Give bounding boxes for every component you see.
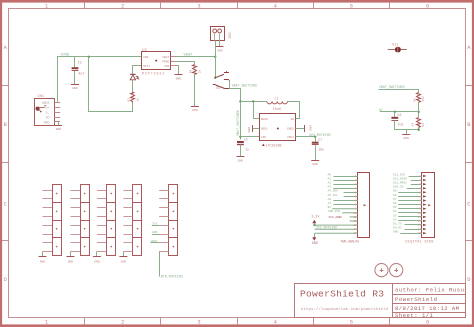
- wire J2 pin 13 D1_TX: [405, 224, 422, 226]
- connector CN1 (USB): [35, 95, 55, 126]
- wire JP5 GND stub: [152, 234, 159, 236]
- wire J2 pin 4 D10_SS: [407, 188, 422, 190]
- svg-text:A7: A7: [328, 202, 332, 205]
- wire J1 pin 1 A0: [333, 176, 357, 178]
- wire J1 pin 13: [315, 224, 358, 226]
- frame row letters right: [467, 45, 471, 283]
- wire J1 pin 3 A2: [333, 184, 357, 186]
- wire JP5 3V3 stub: [152, 225, 159, 227]
- title mark circle 1: [375, 264, 388, 277]
- wire VBUS up to VUSB rail: [58, 57, 142, 103]
- svg-text:VIN: VIN: [261, 136, 266, 139]
- wire J2 pin 7 D7: [398, 200, 422, 202]
- svg-text:SW: SW: [291, 118, 295, 121]
- svg-text:C5: C5: [244, 138, 248, 142]
- svg-text:6: 6: [426, 4, 429, 10]
- svg-text:2k: 2k: [197, 69, 201, 73]
- svg-text:10u: 10u: [318, 147, 324, 151]
- J2 center arrow: [428, 204, 431, 207]
- svg-text:GND1: GND1: [261, 128, 268, 131]
- svg-text:L1: L1: [275, 97, 279, 101]
- wire J2 pin 10 D4: [398, 212, 422, 214]
- svg-text:D13_SCK: D13_SCK: [393, 173, 405, 176]
- wire J2 pin 9 D5: [398, 208, 422, 210]
- wire divider input: [379, 90, 419, 93]
- svg-text:C7: C7: [318, 138, 322, 142]
- wire J2 pin 5 D9: [398, 192, 422, 194]
- svg-text:D9: D9: [393, 190, 397, 193]
- svg-text:3,3V: 3,3V: [311, 215, 319, 219]
- svg-text:VBUS: VBUS: [42, 101, 50, 105]
- wire J2 pin 1 D13_SCK: [409, 176, 422, 178]
- connector CN2 (battery): [211, 27, 232, 41]
- svg-text:GND: GND: [312, 241, 318, 245]
- CN1 USB symbol: [36, 105, 46, 112]
- junction SHDN tap: [252, 100, 254, 102]
- wire L1 to SW pin: [288, 102, 300, 119]
- svg-text:3V3_AREF: 3V3_AREF: [328, 216, 342, 219]
- junction on VUSB rail: [88, 56, 90, 58]
- svg-text:6: 6: [426, 319, 429, 325]
- wire J1 pin 4 A3: [333, 188, 357, 190]
- svg-text:5: 5: [350, 4, 353, 10]
- svg-text:CN1: CN1: [38, 95, 44, 99]
- pin header JP2: [71, 185, 90, 256]
- solder jumper SJ1: [388, 42, 407, 52]
- svg-text:1k: 1k: [135, 98, 139, 102]
- svg-text:S1: S1: [216, 86, 220, 90]
- U3 right pin stubs: [171, 57, 177, 66]
- wire J1 pin 14: [315, 228, 358, 230]
- svg-text:D7: D7: [393, 198, 397, 201]
- svg-text:2: 2: [121, 319, 124, 325]
- svg-text:D8: D8: [393, 194, 397, 197]
- wire J2 pin 12 D2: [398, 220, 422, 222]
- svg-text:5: 5: [350, 319, 353, 325]
- svg-text:GND: GND: [217, 48, 223, 52]
- svg-text:GND: GND: [309, 125, 313, 131]
- wire J2 pin 2 D12_MISO: [411, 180, 422, 182]
- svg-text:VBAT: VBAT: [162, 56, 169, 59]
- wire J1 pin 2 A1: [333, 180, 357, 182]
- frame row ticks left: [2, 86, 8, 241]
- svg-text:GND: GND: [94, 260, 100, 264]
- svg-text:GND: GND: [393, 231, 398, 234]
- svg-text:C: C: [467, 202, 470, 208]
- IC U3 charger: [142, 49, 171, 76]
- pin header JP1: [43, 185, 62, 256]
- svg-text:D1_TX: D1_TX: [393, 222, 402, 225]
- wire LED up to STAT pin: [133, 66, 142, 75]
- svg-text:GND2: GND2: [287, 128, 294, 131]
- svg-text:GND: GND: [238, 158, 244, 162]
- svg-text:D5: D5: [393, 206, 397, 209]
- junction J1 pin 13: [313, 224, 315, 226]
- frame column ticks top: [85, 3, 390, 9]
- svg-text:BTN_MOTEINO: BTN_MOTEINO: [161, 274, 183, 278]
- ground below JP4: [119, 257, 127, 264]
- wire JP2 pin8 to ground: [70, 252, 72, 257]
- svg-text:4: 4: [274, 319, 277, 325]
- wire divider bottom: [395, 128, 419, 130]
- svg-text:CN2: CN2: [228, 33, 232, 39]
- title mark circle 2: [390, 264, 403, 277]
- wire VBAT rail: [177, 56, 216, 58]
- svg-text:PROG: PROG: [162, 60, 169, 63]
- wire JP1 pin8 to ground: [42, 252, 44, 257]
- ground below C5: [236, 157, 244, 163]
- svg-text:GND: GND: [192, 108, 198, 112]
- wire J1 pin 15: [315, 232, 358, 234]
- svg-text:2: 2: [121, 4, 124, 10]
- svg-text:1M: 1M: [410, 123, 414, 127]
- wire JP5 pin8 BTN: [159, 252, 161, 277]
- pin header JP5: [159, 185, 178, 256]
- wire CN2 pin2 to ground: [219, 41, 221, 47]
- wire R2 to node A7: [418, 102, 420, 117]
- svg-text:PWR_ANALOG: PWR_ANALOG: [341, 240, 360, 244]
- ground below C7: [311, 161, 319, 166]
- LED D1: [130, 74, 139, 79]
- wire J1 pin 8 A7: [333, 204, 357, 206]
- wire J2 pin 8 D6: [398, 204, 422, 206]
- svg-text:GND: GND: [56, 127, 62, 131]
- capacitor C7: [312, 137, 324, 160]
- svg-text:4u7: 4u7: [78, 72, 84, 76]
- ground below C2: [71, 85, 79, 90]
- J1 center arrow: [364, 204, 367, 207]
- ground rotated at GND2: [296, 125, 313, 132]
- svg-text:A2: A2: [328, 182, 332, 185]
- ground below CN2: [216, 47, 224, 53]
- inductor L1: [267, 97, 288, 111]
- svg-text:D11_MOSI: D11_MOSI: [393, 182, 407, 185]
- svg-text:0u1: 0u1: [398, 122, 404, 126]
- svg-text:C: C: [4, 202, 7, 208]
- ground rotated at GND1: [247, 125, 259, 133]
- frame row ticks right: [466, 86, 472, 241]
- svg-text:1: 1: [45, 319, 48, 325]
- svg-text:R1: R1: [126, 98, 130, 102]
- wire VIN: [240, 136, 259, 138]
- junction VBAT: [214, 56, 216, 58]
- svg-text:3: 3: [197, 4, 200, 10]
- wire SHDN: [254, 102, 260, 119]
- wire J1 pin 9 BV: [332, 208, 357, 210]
- svg-text:R2: R2: [412, 98, 416, 102]
- ground arrow at J1: [312, 233, 318, 245]
- svg-text:3V3_MOTEINO: 3V3_MOTEINO: [309, 133, 331, 137]
- svg-text:4: 4: [274, 4, 277, 10]
- svg-text:VBAT_SWITCHED: VBAT_SWITCHED: [379, 85, 405, 89]
- switch S1: [213, 71, 229, 88]
- svg-text:GND: GND: [44, 120, 50, 124]
- wire J1 pin 7 A6: [333, 200, 357, 202]
- frame column numbers top: [45, 4, 429, 10]
- ground below JP3: [93, 257, 101, 264]
- svg-text:R4: R4: [189, 69, 193, 73]
- svg-text:D+: D+: [46, 106, 50, 110]
- wire J2 pin 11 D3: [398, 216, 422, 218]
- svg-text:STAT: STAT: [143, 65, 150, 68]
- svg-text:C2: C2: [78, 60, 82, 64]
- capacitor C8: [391, 112, 403, 130]
- wire A7: [380, 111, 419, 113]
- svg-text:author: Felix Rusu: author: Felix Rusu: [395, 287, 464, 294]
- frame column numbers bottom: [45, 319, 429, 325]
- svg-text:SHDN: SHDN: [261, 118, 268, 121]
- svg-text:A3: A3: [328, 186, 332, 189]
- svg-text:3V3: 3V3: [152, 223, 157, 226]
- svg-text:D6: D6: [393, 202, 397, 205]
- svg-text:4M7: 4M7: [421, 96, 425, 102]
- CN1 pins: [54, 103, 60, 122]
- junction node A7: [418, 111, 420, 113]
- svg-text:A0: A0: [328, 173, 332, 176]
- svg-text:VBAT: VBAT: [184, 54, 193, 58]
- frame column ticks bottom: [85, 318, 390, 325]
- svg-text:Sheet: 1/1: Sheet: 1/1: [395, 312, 434, 319]
- svg-text:VSS: VSS: [164, 65, 169, 68]
- svg-text:VBAT_SWITCHED: VBAT_SWITCHED: [232, 83, 258, 87]
- svg-text:A1: A1: [328, 178, 332, 181]
- wire J2 pin 14 D0_RX: [405, 229, 422, 231]
- wire J2 pin 3 D11_MOSI: [411, 184, 422, 186]
- svg-text:PowerShield R3: PowerShield R3: [300, 289, 384, 300]
- wire J1 pin 6 A5_SCL: [344, 196, 358, 198]
- svg-text:U3: U3: [142, 49, 146, 53]
- connector J1 PWR_ANALOG: [353, 173, 369, 238]
- svg-text:D-: D-: [46, 111, 50, 115]
- wire J1 pin 12: [350, 220, 358, 222]
- svg-text:1u: 1u: [245, 147, 249, 151]
- svg-text:ID: ID: [46, 116, 50, 120]
- svg-text:GND: GND: [72, 86, 78, 90]
- wire JP5 VBAT stub: [150, 242, 159, 244]
- svg-text:D4: D4: [393, 210, 397, 213]
- supply symbol 3.3V arrow: [312, 220, 316, 225]
- ground below R4: [191, 107, 199, 113]
- wire VOUT: [296, 136, 316, 138]
- svg-text:GND: GND: [68, 260, 74, 264]
- wire switch to VBAT_SWITCHED vertical: [229, 81, 241, 140]
- svg-text:8/8/2017 10:12 AM: 8/8/2017 10:12 AM: [395, 305, 459, 312]
- svg-text:MCP73831: MCP73831: [142, 72, 165, 76]
- junction at switch common: [214, 77, 216, 79]
- svg-text:D3: D3: [393, 214, 397, 217]
- svg-text:VBAT: VBAT: [151, 240, 158, 243]
- svg-text:A4_SDA: A4_SDA: [328, 190, 339, 193]
- svg-text:3: 3: [197, 319, 200, 325]
- connector J2 DIGITAL SIDE: [418, 173, 435, 238]
- svg-text:GND: GND: [152, 231, 157, 234]
- wire J1 pin 5 A4_SDA: [344, 192, 358, 194]
- capacitor C5: [237, 138, 249, 157]
- svg-text:A6: A6: [328, 198, 332, 201]
- svg-text:D12_MISO: D12_MISO: [393, 178, 407, 181]
- svg-text:https://lowpowerlab.com/powers: https://lowpowerlab.com/powershield: [301, 307, 389, 312]
- svg-text:R3: R3: [421, 123, 425, 127]
- wire J2 pin 15 GND: [400, 233, 422, 235]
- svg-text:A5_SCL: A5_SCL: [328, 194, 339, 197]
- svg-text:D2: D2: [393, 218, 397, 221]
- wire JP3 pin8 to ground: [96, 252, 98, 257]
- svg-text:D: D: [4, 277, 7, 283]
- svg-text:D10_SS: D10_SS: [393, 186, 404, 189]
- junction buck input VIN: [239, 136, 241, 138]
- svg-text:D0_RX: D0_RX: [393, 227, 402, 230]
- wire CN2 pin1 down to switch: [215, 41, 217, 78]
- svg-text:GND: GND: [176, 76, 182, 80]
- junction C8 tap: [394, 111, 396, 113]
- svg-text:GND: GND: [40, 260, 46, 264]
- IC U4 boost converter: [260, 114, 296, 148]
- svg-text:VUSB: VUSB: [61, 54, 70, 58]
- svg-text:DIGITAL SIDE: DIGITAL SIDE: [405, 240, 433, 244]
- pin header JP4: [123, 185, 142, 256]
- CN1 pin names: [42, 101, 50, 124]
- ground at divider: [402, 135, 410, 140]
- svg-text:BV: BV: [328, 206, 332, 209]
- wire PROG to R4: [177, 62, 195, 65]
- title block frame: [295, 283, 466, 318]
- wire to divider ground: [406, 130, 408, 134]
- svg-text:USB: USB: [143, 56, 148, 59]
- svg-text:PowerShield: PowerShield: [395, 296, 437, 303]
- svg-text:D: D: [467, 277, 470, 283]
- svg-text:GND: GND: [121, 260, 127, 264]
- wire J2 pin 6 D8: [398, 196, 422, 198]
- svg-text:GND: GND: [312, 162, 318, 166]
- junction VOUT: [314, 136, 316, 138]
- ground below JP1: [39, 257, 47, 264]
- ground at U3 VSS: [175, 75, 183, 81]
- svg-text:GND_BTN: GND_BTN: [328, 210, 340, 213]
- wire J1 pin 10 GND_BTN: [342, 212, 357, 214]
- svg-text:VBAT_SWITCHED: VBAT_SWITCHED: [236, 110, 240, 136]
- svg-text:1: 1: [45, 4, 48, 10]
- svg-text:C8: C8: [397, 113, 401, 117]
- wire JP4 pin8 to ground: [123, 252, 125, 257]
- wire VSS to ground: [177, 66, 179, 75]
- capacitor C2: [72, 57, 85, 84]
- svg-text:A7: A7: [379, 108, 383, 112]
- ground below CN1: [55, 122, 62, 131]
- svg-text:10uH: 10uH: [273, 107, 281, 111]
- svg-text:SJ1: SJ1: [392, 42, 398, 46]
- junction buck input top: [239, 100, 241, 102]
- svg-text:VOUT: VOUT: [287, 136, 294, 139]
- wire R4 to ground: [194, 74, 196, 106]
- wire J1 pin 11: [350, 216, 358, 218]
- resistor R3: [410, 118, 425, 128]
- svg-text:GND: GND: [403, 136, 409, 140]
- wire R1 to LED: [132, 80, 134, 91]
- svg-text:LTC3526B: LTC3526B: [266, 143, 282, 147]
- resistor R4: [189, 65, 202, 75]
- pin header JP3: [97, 185, 116, 256]
- svg-text:GND: GND: [247, 127, 251, 133]
- wire loop from VUSB junction down to R1 bottom: [89, 57, 133, 112]
- junction divider bottom: [418, 129, 420, 131]
- resistor R2: [412, 93, 425, 103]
- ground below JP2: [67, 257, 75, 264]
- wire to L1: [240, 101, 267, 103]
- resistor R1: [126, 92, 139, 103]
- frame row letters left: [4, 45, 8, 283]
